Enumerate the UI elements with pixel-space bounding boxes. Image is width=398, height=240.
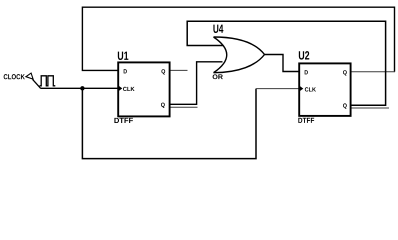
U1 part label DTFF (114, 118, 133, 123)
wire CLOCK to U1.CLK (41, 87, 119, 89)
wire U2.Q pin stub horizontal (351, 71, 395, 73)
node junction dot on CLOCK net (80, 86, 84, 90)
clock waveform symbol (40, 76, 56, 86)
U2 pin Q label (343, 70, 347, 75)
wire OR gate output to U2.D (265, 55, 300, 72)
wire U2.QN pin stub (351, 107, 389, 109)
U2 part label DTFF (298, 118, 314, 123)
or-gate U4 body (214, 37, 265, 73)
wire net U1.QN to OR gate bottom input (169, 62, 222, 105)
wire into U2.CLK (256, 88, 299, 90)
U2 reference label (299, 51, 309, 60)
wire U1.Q unconnected pin stub (170, 69, 188, 71)
U2 pin CLK label (305, 87, 316, 91)
port label CLOCK (4, 74, 25, 79)
flip-flop U1 body (118, 62, 169, 116)
U2 pin D label (305, 70, 308, 74)
U1 pin D label (124, 69, 127, 73)
U2 clock triangle marker (300, 86, 304, 91)
wire CLOCK bottom loop down and across (82, 88, 256, 158)
wire U1.QN pin stub (169, 106, 197, 108)
flip-flop U2 body (299, 63, 350, 116)
U1 clock triangle marker (119, 86, 123, 91)
U4 part label OR (213, 74, 223, 79)
U4 reference label (213, 25, 223, 33)
U1 pin Q label (161, 69, 165, 74)
U1 pin CLK label (123, 87, 135, 91)
wire net U2.QN to OR gate top input (187, 21, 385, 105)
wire net U2.Q feedback to U1.D (outer loop) (82, 7, 394, 72)
U1 pin QN label (161, 103, 165, 108)
port CLOCK arrow symbol (26, 73, 33, 79)
U1 reference label (118, 52, 129, 60)
U2 pin QN label (343, 103, 347, 108)
